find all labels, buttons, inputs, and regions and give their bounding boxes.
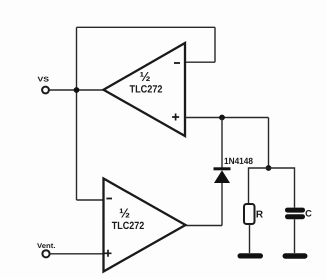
wire: R to ground — [249, 224, 251, 253]
pin: U2 inverting minus sign — [106, 198, 112, 200]
wire: U1 plus input to right — [185, 117, 269, 119]
svg-text:VS: VS — [38, 77, 50, 84]
wire: Vent to U2 plus input — [50, 253, 104, 255]
svg-text:TLC272: TLC272 — [112, 220, 145, 232]
pin: U1 inverting minus sign — [174, 62, 180, 64]
svg-text:TLC272: TLC272 — [130, 83, 163, 95]
pin: U2 non-inverting plus sign — [105, 250, 112, 257]
pin: U1 non-inverting plus sign — [172, 114, 179, 121]
wire: RC junction to C — [269, 168, 295, 208]
node: junction VS bus — [74, 87, 80, 93]
wire: bus to U2 inverting input — [77, 199, 104, 201]
op-amp U1 (1/2 TLC272, mirrored, apex left) — [104, 43, 186, 136]
wire: diode anode vertical — [221, 118, 223, 168]
ground below R — [238, 253, 264, 258]
terminal VS — [42, 87, 49, 94]
wire: C to ground — [294, 219, 296, 253]
wire: right vertical to RC junction — [268, 118, 270, 169]
wire: RC junction to R — [249, 168, 269, 204]
svg-text:C: C — [305, 208, 312, 218]
svg-text:½: ½ — [140, 69, 151, 84]
node: junction R C — [266, 165, 272, 171]
svg-text:1N4148: 1N4148 — [224, 156, 253, 166]
wire: top feedback horizontal — [77, 26, 216, 28]
svg-text:R: R — [256, 210, 264, 221]
svg-text:Vent.: Vent. — [37, 243, 56, 250]
node: junction diode top — [219, 115, 225, 121]
capacitor C plate top — [285, 208, 305, 213]
wire: left vertical bus — [76, 27, 78, 200]
wire: feedback to inverting input of U1 — [185, 61, 215, 63]
svg-text:½: ½ — [119, 205, 130, 220]
resistor R — [244, 204, 255, 224]
wire: diode to output of U2 — [221, 183, 223, 226]
wire: VS to U1 output apex — [50, 89, 104, 91]
capacitor C plate bottom — [285, 214, 305, 219]
diode D1 1N4148 anode triangle — [214, 170, 230, 183]
diode D1 1N4148 cathode bar — [214, 167, 231, 170]
op-amp U2 (1/2 TLC272, apex right) — [104, 179, 186, 272]
terminal Vent — [42, 250, 49, 257]
wire: feedback right vertical — [214, 27, 216, 62]
ground below C — [283, 253, 308, 258]
wire: U2 output horizontal — [186, 225, 223, 227]
